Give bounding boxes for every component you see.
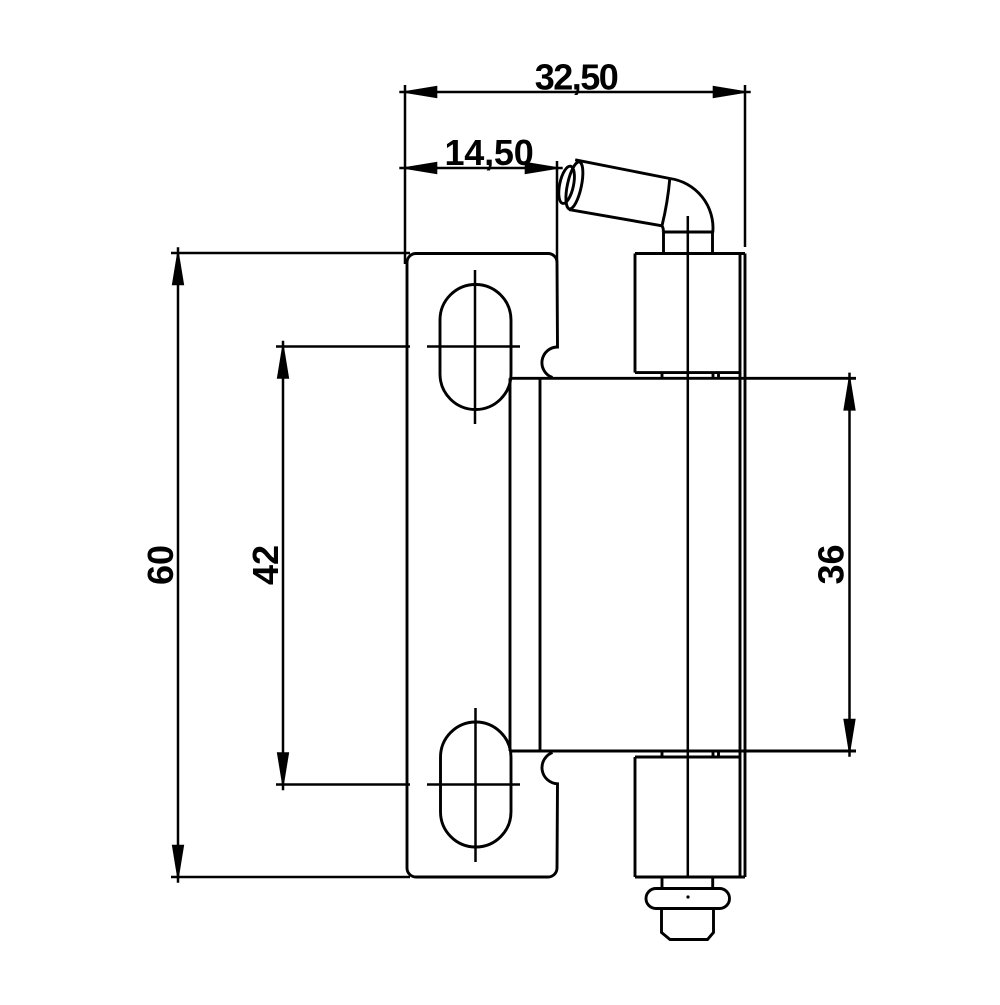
bottom slot crosshair horizontal [427,783,520,786]
tube end outer ellipse [563,160,587,210]
pin centerline [687,216,690,877]
collar center dot [686,895,689,898]
arrow 36 bottom [843,719,855,757]
top slot crosshair horizontal [427,345,520,348]
ext line 60 top [171,252,410,255]
ext line 60 bottom [171,876,410,879]
ext line left (32,50 / 14,50) [404,85,407,264]
elbow inner arc [662,226,663,232]
svg-text:32,50: 32,50 [535,57,618,98]
pin end block with chamfer [662,909,714,940]
leaf body bottom edge (also 36 extension line) [510,750,856,753]
arrow 42 top [277,341,289,379]
arrow 14,50 right [525,162,563,174]
leaf body inner bend line [539,378,542,751]
svg-text:60: 60 [140,545,181,585]
dim line 36 [848,373,851,757]
dim line 14,50 [399,167,562,170]
mounting plate outline [407,254,558,878]
arrow 36 top [843,373,855,411]
bottom pin neck [661,877,664,889]
ext line right 14,50 [556,161,559,262]
tube top line [575,160,670,179]
svg-text:42: 42 [245,545,286,585]
bottom slot [441,722,512,847]
arrow 32,50 right [713,86,751,98]
elbow outer arc [670,179,713,233]
leaf body top edge (also 36 extension line) [510,377,856,380]
pin visible ticks, bottom [661,751,664,757]
ext line 42 top [276,345,410,348]
bottom knuckle [634,757,637,877]
top knuckle [634,254,637,373]
elbow neck [662,232,665,254]
elbow/tube joint curve [662,179,670,226]
pin visible ticks between knuckle and body, top [661,373,664,379]
dim line 32,50 [399,91,750,94]
arrow 32,50 left [399,86,437,98]
top slot crosshair vertical [474,270,477,424]
arrow 60 top [172,247,184,285]
dim line 42 [282,341,285,790]
tube end inner ellipse [556,165,577,205]
svg-text:14,50: 14,50 [444,132,533,173]
leaf body left edge [509,378,512,751]
top slot [440,285,511,410]
ext line right 32,50 [744,85,747,247]
counter leaf edge-on strip [739,254,742,878]
arrow 42 bottom [277,752,289,790]
bottom slot crosshair vertical [474,708,477,862]
ext line 42 bottom [276,783,410,786]
arrow 60 bottom [172,845,184,883]
arrow 14,50 left [399,162,437,174]
dim line 60 [177,247,180,882]
tube bottom line [569,210,662,226]
pin collar [646,889,730,909]
svg-text:36: 36 [811,544,852,584]
